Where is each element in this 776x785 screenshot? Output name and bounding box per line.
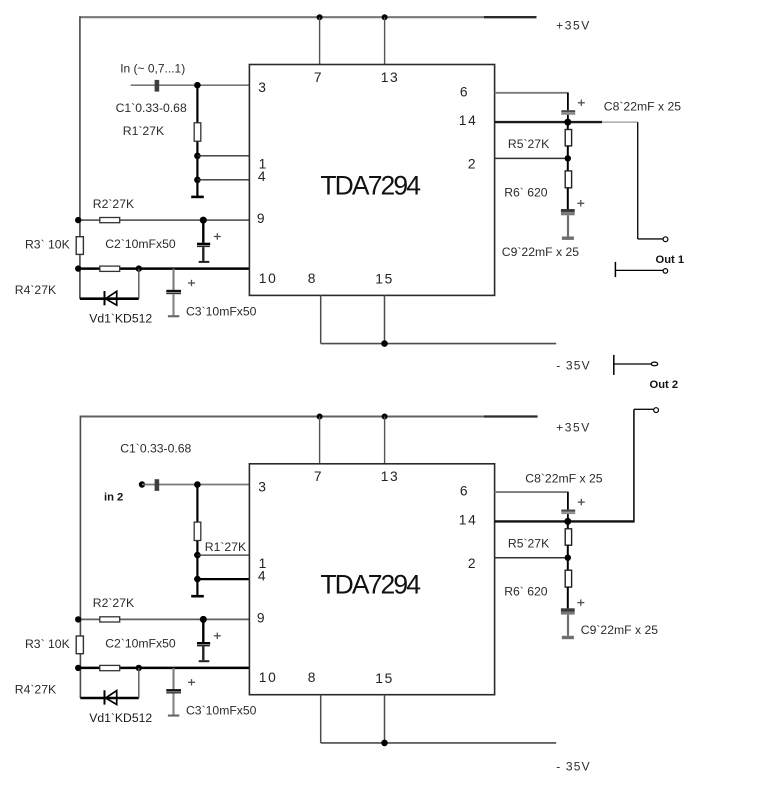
svg-text:R3` 10K: R3` 10K <box>25 238 70 252</box>
terminal out 1 return <box>615 262 663 277</box>
wire diode branch (A) <box>80 269 139 299</box>
capacitor C1 (B) <box>155 479 160 491</box>
wire pin 13 stub (A) <box>384 17 386 64</box>
svg-text:7: 7 <box>314 70 322 85</box>
svg-text:R4`27K: R4`27K <box>15 683 56 697</box>
svg-text:14: 14 <box>459 513 478 528</box>
wire -35V rail (B) <box>321 695 557 743</box>
terminal out 2 return <box>614 355 651 375</box>
svg-text:Out 2: Out 2 <box>650 379 679 391</box>
capacitor C8 (B) <box>561 499 585 522</box>
svg-text:C9`22mF x 25: C9`22mF x 25 <box>502 245 579 259</box>
wire pin 14 (A) <box>495 121 638 123</box>
svg-text:2: 2 <box>468 556 476 571</box>
wire input to pin 3 (B) <box>142 484 249 486</box>
capacitor C3 (A) <box>166 269 195 318</box>
junction dot pin7 rail (A) <box>317 14 323 20</box>
svg-text:15: 15 <box>375 272 394 287</box>
junction dot C8 bottom (A) <box>564 119 571 126</box>
svg-text:3: 3 <box>258 80 266 95</box>
capacitor C2 (B) <box>197 619 221 662</box>
svg-text:R1`27K: R1`27K <box>123 124 164 138</box>
wire pin 7 stub (B) <box>319 417 321 464</box>
wire pin 13 stub (B) <box>384 417 386 464</box>
svg-text:13: 13 <box>381 70 400 85</box>
junction dot pin1 node (A) <box>194 153 201 160</box>
op-amp U1 TDA7294 (A) <box>249 65 494 296</box>
svg-text:4: 4 <box>258 169 266 184</box>
wire pin 14 (B) <box>495 520 635 522</box>
wire pin 4 (B) <box>197 578 249 580</box>
wire pin 6 (A) <box>495 93 569 111</box>
svg-text:R5`27K: R5`27K <box>508 137 549 151</box>
svg-text:R2`27K: R2`27K <box>93 596 134 610</box>
terminal out 1 return circle <box>663 269 668 274</box>
wire pin 9 (B) <box>78 618 249 620</box>
wire pin 4 (A) <box>197 179 249 181</box>
junction dot pin15 rail (B) <box>381 740 388 747</box>
svg-text:C1`0.33-0.68: C1`0.33-0.68 <box>116 101 187 115</box>
wire input to pin 3 (A) <box>131 84 250 86</box>
svg-text:R6` 620: R6` 620 <box>504 185 548 199</box>
wire -35V rail (A) <box>321 295 557 343</box>
junction dot pin15 rail (A) <box>381 340 388 347</box>
wire pin 7 stub (A) <box>319 17 321 64</box>
capacitor C3 (B) <box>166 668 195 717</box>
junction dot pin10 left (A) <box>75 265 81 271</box>
wire pin 6 (B) <box>495 492 569 510</box>
junction dot input node (A) <box>194 82 201 89</box>
svg-text:8: 8 <box>308 271 316 286</box>
svg-text:- 35V: - 35V <box>556 359 591 373</box>
resistor R4 (A) <box>100 266 120 271</box>
resistor R3 (B) <box>76 636 83 654</box>
junction dot diode right (B) <box>136 665 142 671</box>
svg-text:Out 1: Out 1 <box>656 254 685 266</box>
junction dot pin2 node (A) <box>565 155 571 161</box>
junction dot pin4 node (A) <box>194 177 201 184</box>
junction dot C2 top (A) <box>200 217 207 224</box>
resistor R2 (B) <box>100 617 120 622</box>
wire diode branch (B) <box>80 668 138 698</box>
svg-text:TDA7294: TDA7294 <box>320 570 420 600</box>
svg-text:C9`22mF x 25: C9`22mF x 25 <box>581 623 658 637</box>
svg-text:4: 4 <box>258 569 266 584</box>
wire pin 10 (A) <box>78 267 249 270</box>
svg-text:C2`10mFx50: C2`10mFx50 <box>105 636 176 650</box>
svg-text:13: 13 <box>381 469 400 484</box>
svg-text:2: 2 <box>468 157 476 172</box>
svg-text:15: 15 <box>375 671 394 686</box>
capacitor C9 (B) <box>561 599 584 639</box>
svg-text:8: 8 <box>308 670 316 685</box>
svg-text:R3` 10K: R3` 10K <box>25 637 70 651</box>
junction dot pin4 node (B) <box>194 576 201 583</box>
wire +35V rail (B) <box>80 416 537 418</box>
svg-text:R1`27K: R1`27K <box>205 540 246 554</box>
svg-text:10: 10 <box>259 670 278 685</box>
svg-text:R6` 620: R6` 620 <box>504 585 548 599</box>
wire R1 vertical (A) <box>196 85 198 197</box>
resistor R1 (B) <box>194 522 201 540</box>
resistor R1 (A) <box>194 123 201 141</box>
wire left vertical (B) <box>79 416 81 699</box>
resistor R5 (A) <box>565 122 571 158</box>
terminal out 1 (A) <box>663 237 668 242</box>
wire pin 9 (A) <box>78 219 249 221</box>
svg-text:Vd1`KD512: Vd1`KD512 <box>89 711 152 725</box>
wire left vertical (A) <box>79 16 81 299</box>
diode Vd1 (B) <box>105 690 117 704</box>
svg-text:+35V: +35V <box>556 421 591 435</box>
resistor R2 (A) <box>100 218 120 223</box>
ground (A) <box>191 196 204 199</box>
capacitor C2 (A) <box>197 220 221 263</box>
svg-text:C1`0.33-0.68: C1`0.33-0.68 <box>120 441 191 455</box>
junction dot pin7 rail (B) <box>317 414 323 420</box>
svg-text:R4`27K: R4`27K <box>15 283 56 297</box>
svg-text:C3`10mFx50: C3`10mFx50 <box>186 704 257 718</box>
resistor R5 (B) <box>565 521 571 557</box>
resistor R6 (A) <box>565 158 571 209</box>
junction dot input node (B) <box>194 481 201 488</box>
wire pin 10 (B) <box>78 667 249 670</box>
terminal input dot (B) <box>139 481 145 487</box>
junction dot pin9 left (A) <box>75 217 81 223</box>
capacitor C9 (A) <box>561 200 584 240</box>
svg-text:6: 6 <box>460 84 468 99</box>
resistor R4 (B) <box>100 665 120 670</box>
svg-text:C3`10mFx50: C3`10mFx50 <box>186 304 257 318</box>
svg-text:- 35V: - 35V <box>556 760 591 774</box>
svg-text:C8`22mF x 25: C8`22mF x 25 <box>604 100 681 114</box>
svg-text:R2`27K: R2`27K <box>93 197 134 211</box>
capacitor C1 (A) <box>155 80 160 92</box>
wire pin 2 (B) <box>495 557 568 559</box>
resistor R3 (A) <box>76 237 83 255</box>
svg-text:10: 10 <box>259 271 278 286</box>
wire out 1 drop (A) <box>638 122 663 239</box>
capacitor C8 (A) <box>561 100 585 123</box>
svg-text:in 2: in 2 <box>104 492 123 504</box>
svg-text:Vd1`KD512: Vd1`KD512 <box>89 312 152 326</box>
svg-text:TDA7294: TDA7294 <box>320 170 420 200</box>
junction dot pin2 node (B) <box>565 555 571 561</box>
svg-text:14: 14 <box>459 113 478 128</box>
op-amp U2 TDA7294 (B) <box>249 464 494 695</box>
junction dot pin13 rail (A) <box>382 14 388 20</box>
wire pin 1 (A) <box>197 155 249 157</box>
svg-text:7: 7 <box>314 469 322 484</box>
junction dot C2 top (B) <box>200 616 207 623</box>
junction dot pin10 left (B) <box>75 665 81 671</box>
svg-text:9: 9 <box>257 211 265 226</box>
svg-text:C8`22mF x 25: C8`22mF x 25 <box>525 471 602 485</box>
wire out 2 rise (B) <box>634 409 654 521</box>
svg-text:6: 6 <box>460 484 468 499</box>
junction dot pin13 rail (B) <box>382 414 388 420</box>
junction dot pin9 left (B) <box>75 616 81 622</box>
diode Vd1 (A) <box>105 291 117 305</box>
wire pin 1 (B) <box>197 554 249 556</box>
svg-text:R5`27K: R5`27K <box>508 536 549 550</box>
svg-text:+35V: +35V <box>556 19 591 33</box>
wire +35V rail (A) <box>80 16 537 18</box>
wire R1 vertical (B) <box>196 485 198 597</box>
wire pin 2 (A) <box>495 157 568 159</box>
svg-text:C2`10mFx50: C2`10mFx50 <box>105 237 176 251</box>
junction dot C8 bottom (B) <box>564 518 571 525</box>
svg-text:3: 3 <box>258 480 266 495</box>
svg-text:9: 9 <box>257 611 265 626</box>
svg-text:In (~ 0,7...1): In (~ 0,7...1) <box>120 61 185 75</box>
junction dot diode right (A) <box>136 265 142 271</box>
junction dot pin1 node (B) <box>194 552 201 559</box>
terminal out 2 (B) <box>654 408 659 413</box>
terminal out 2 return circle <box>651 362 658 366</box>
ground (B) <box>191 595 204 598</box>
resistor R6 (B) <box>565 558 571 609</box>
